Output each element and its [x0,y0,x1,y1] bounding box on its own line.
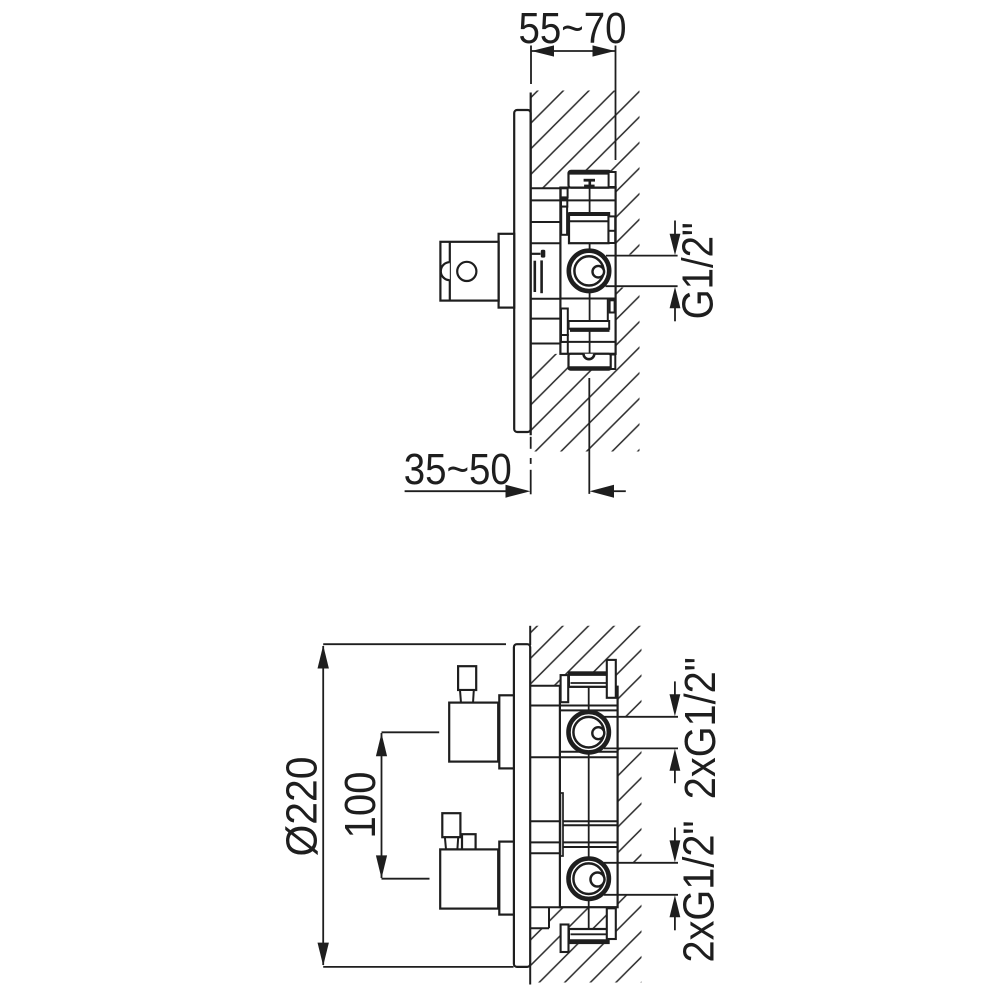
bottom left tab [561,925,569,953]
port 2 small circle [591,873,605,887]
port 2 circle outer [569,859,609,899]
leader port1 top [604,716,678,718]
lower collar band [569,321,610,329]
recess bottom step [530,927,549,929]
collar [569,214,609,244]
port 2 circle inner [573,863,604,894]
wall face line [530,93,532,436]
valve body (side section) [560,188,615,354]
extension line left (wall face) [530,46,532,85]
lower collar right line [607,299,609,321]
handle 1 knob neck [460,690,474,703]
port 1 small circle [592,727,604,739]
collar right tab [609,216,616,243]
bottom cap [569,354,611,370]
extension line plate top [323,643,506,645]
leader port2 top [604,862,678,864]
dimension line 55~70 [531,50,616,52]
leader port2 bottom [604,894,678,896]
svg-text:2xG1/2": 2xG1/2" [675,821,724,963]
wall face stubs [529,626,531,645]
handle circle [457,262,476,281]
recess step lines [531,188,561,343]
extension line right (valve back) [615,46,617,161]
left thin strip [560,793,563,856]
port circle outer [569,251,609,291]
handle neck (side) [499,234,515,308]
top cap [569,171,612,188]
bottom cap right tab [611,355,616,370]
arrow down port1 [674,681,676,695]
arrow down G1/2 [674,221,676,237]
arrow up G1/2 [674,306,676,321]
handle 2 block [440,849,498,908]
extension dashes wall face [530,437,532,449]
svg-text:2xG1/2": 2xG1/2" [676,657,725,799]
body line above circle [560,199,615,201]
valve body (vertical section) [560,687,618,908]
arrow up port2 [674,915,676,930]
handle block (side) [440,242,498,301]
port 1 circle inner [573,717,604,748]
bottom bar [569,929,609,943]
left slider clips [561,188,568,197]
wall hatch (top view) [530,91,639,452]
handle 2 knob [442,813,460,837]
extension line plate bottom [323,966,513,968]
svg-text:G1/2": G1/2" [674,222,723,319]
lower body line [560,341,615,343]
handle 1 knob [458,666,476,690]
centerline [589,180,591,249]
svg-text:55~70: 55~70 [519,4,627,53]
bottom right tab [607,908,616,939]
wall hatch (bottom view) [530,626,641,983]
centerline [588,675,590,940]
port 1 circle outer [569,712,609,752]
dimension line 35~50 [405,490,507,492]
port circle inner [574,256,603,285]
lower right tab [610,300,615,312]
port small circle [593,266,605,278]
handle 1 neck to plate [499,695,514,768]
top cap right tab [609,172,616,187]
mounting plate (side) [514,110,530,432]
recess bottom line [530,906,561,908]
svg-text:35~50: 35~50 [404,445,512,494]
top right tab [607,660,616,698]
mounting plate (front-section) [514,644,530,967]
arrow up port1 [674,769,676,784]
handle cap line [449,242,451,301]
leader line upper [606,255,678,257]
handle 2 small knob [462,834,476,850]
lower left slider [561,309,568,336]
leader port1 bottom [604,747,678,749]
dimension line D220 [322,646,324,965]
handle 1 block [449,703,498,762]
arrow to valve center [590,485,614,498]
top left tab [561,675,569,702]
body internal lines [530,706,617,854]
extension line port1 center [382,731,440,733]
recess top line [530,685,560,687]
dimension line 100 [381,733,383,878]
handle arc [441,262,450,280]
fixing screw mark [531,253,540,255]
svg-text:100: 100 [336,772,385,839]
handle 2 knob neck [445,837,458,849]
leader line lower [606,285,678,287]
svg-text:Ø220: Ø220 [278,757,327,857]
arrow down port2 [674,828,676,842]
extension line port2 center [382,878,430,880]
top bar [569,672,609,686]
screw slot symbol [584,179,595,182]
handle 2 neck to plate [499,842,514,915]
extension line valve center [588,378,590,494]
body line below circle [560,298,615,300]
